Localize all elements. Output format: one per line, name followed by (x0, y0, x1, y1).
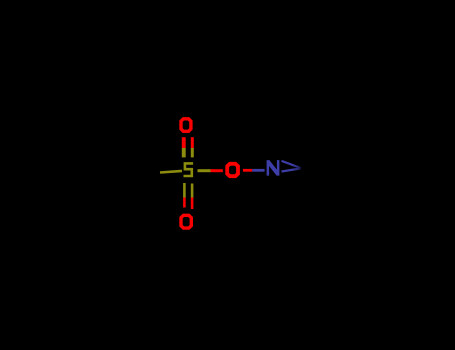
oxygen O1 (top, red letter) (181, 119, 191, 132)
oxygen O3 (bridging, red letter) (227, 164, 238, 176)
wire O-N bond (blue half near N) (252, 169, 264, 172)
sulfur S (olive letter) (184, 162, 194, 177)
wire S=O bottom double bond, line 1 (183, 183, 186, 198)
wire O-N bond (red half near O) (243, 169, 252, 172)
nitrogen N (blue letter) (267, 160, 280, 176)
wire S-O bond (olive half near S) (198, 169, 211, 172)
wire N=C double bond, lower line (blue fading to black) (282, 168, 301, 171)
wire S-O bond (red half near O) (211, 169, 223, 172)
oxygen O2 (bottom, red letter) (181, 215, 191, 228)
wire C-S bond (half near S, olive) (160, 171, 182, 173)
wire S=O bottom double bond, line 2 (191, 184, 194, 198)
wire S=O top double bond, line 1 (182, 137, 186, 148)
wire S=O top double bond, line 2 (191, 137, 194, 148)
wire N=C double bond, upper line (blue fading to black) (282, 161, 301, 168)
